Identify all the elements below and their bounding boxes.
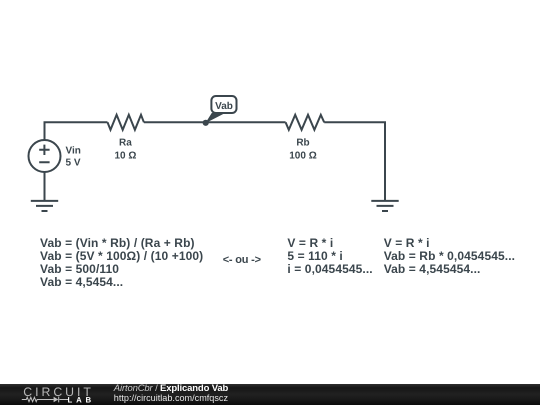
CircuitLab logo <box>0 384 100 405</box>
ground (left) <box>31 201 58 211</box>
svg-text:100 Ω: 100 Ω <box>289 150 316 161</box>
resistor Ra <box>108 115 144 162</box>
footer bar <box>0 384 540 405</box>
equation column 3 <box>384 237 515 277</box>
equation column 2 <box>287 237 372 277</box>
wire Rb to right ground <box>324 122 385 200</box>
wire left top (source to Ra) <box>45 122 108 140</box>
svg-text:Vab: Vab <box>215 101 233 112</box>
ground (right) <box>371 201 398 211</box>
svg-text:5 V: 5 V <box>66 157 81 168</box>
voltage source Vin <box>29 140 81 172</box>
svg-text:Vin: Vin <box>66 146 81 157</box>
wire source bottom to ground <box>44 172 46 201</box>
equation column 1 <box>40 237 203 290</box>
footer attribution text <box>114 383 228 394</box>
svg-text:Rb: Rb <box>296 138 309 149</box>
svg-text:10 Ω: 10 Ω <box>114 150 136 161</box>
wire Ra to Rb <box>144 121 286 123</box>
annotation ou <box>223 254 261 267</box>
resistor Rb <box>286 115 325 162</box>
node Vab flag <box>203 96 237 126</box>
svg-text:LAB: LAB <box>68 396 95 405</box>
svg-text:Ra: Ra <box>119 138 132 149</box>
